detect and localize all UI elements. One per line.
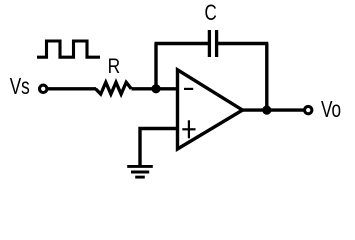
wire junction up to capacitor (left riser) <box>154 44 157 89</box>
op-amp U1 <box>178 70 243 149</box>
wire feedback top, right segment <box>217 42 269 45</box>
wire resistor to op-amp inverting input <box>132 87 178 90</box>
svg-text:Vo: Vo <box>321 97 341 122</box>
svg-text:R: R <box>108 54 121 78</box>
output terminal Vo <box>305 106 312 113</box>
svg-text:C: C <box>205 1 217 26</box>
node inverting-input junction <box>151 84 160 93</box>
op-amp inverting input marker (-) <box>184 88 193 90</box>
node output junction <box>262 106 271 115</box>
wire feedback top, left segment <box>155 42 210 45</box>
square wave input symbol <box>37 41 100 57</box>
capacitor C <box>209 30 216 57</box>
op-amp non-inverting input marker (+) <box>182 120 195 138</box>
wire capacitor down to output node (right riser) <box>265 44 268 111</box>
ground <box>127 166 153 177</box>
wire Vs terminal to resistor R <box>47 87 96 90</box>
wire op-amp output to Vo terminal <box>241 108 304 111</box>
input terminal Vs <box>40 85 47 92</box>
svg-text:Vs: Vs <box>10 74 30 99</box>
wire non-inverting input to ground <box>140 129 178 167</box>
resistor R <box>96 82 132 94</box>
